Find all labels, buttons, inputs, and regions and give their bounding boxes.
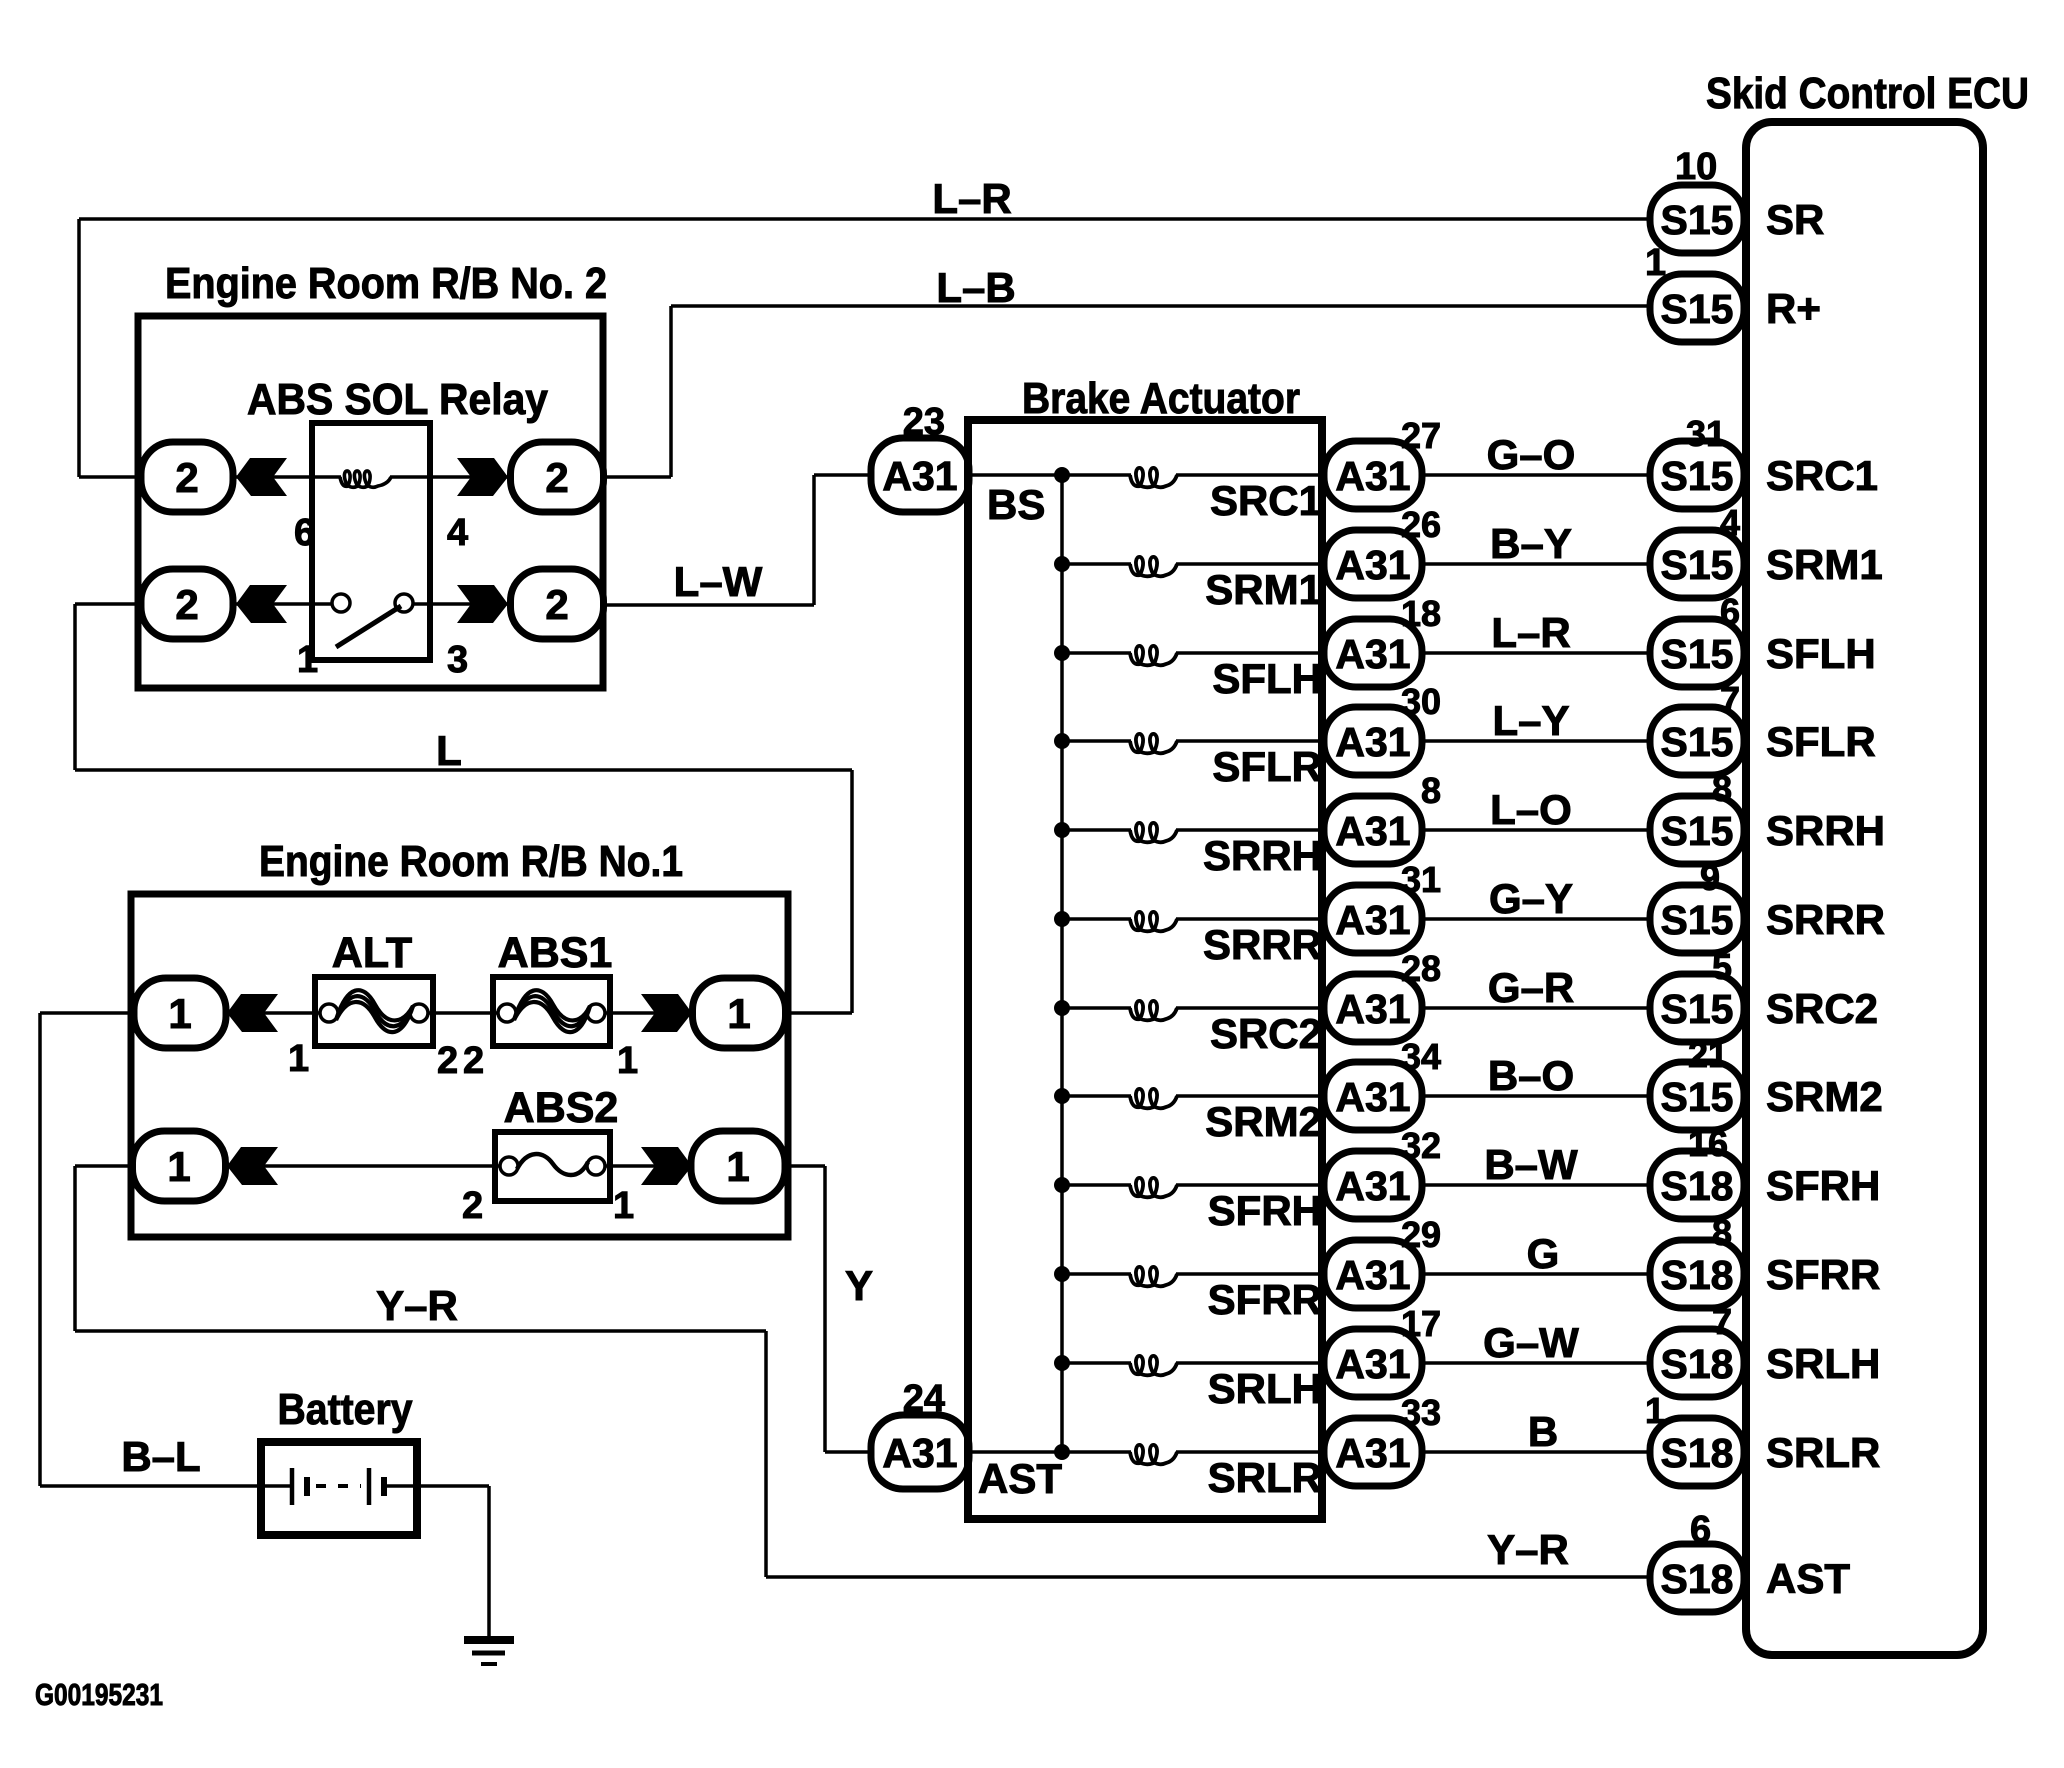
svg-text:G–Y: G–Y (1489, 875, 1573, 922)
svg-text:SFLR: SFLR (1766, 718, 1876, 765)
svg-text:A31: A31 (882, 1430, 957, 1476)
svg-text:2: 2 (462, 1185, 483, 1227)
svg-text:27: 27 (1401, 415, 1441, 456)
svg-text:S18: S18 (1661, 1556, 1734, 1602)
svg-text:L–R: L–R (932, 175, 1011, 222)
svg-text:SFLR: SFLR (1212, 743, 1322, 790)
svg-text:2: 2 (175, 581, 198, 628)
svg-text:4: 4 (1720, 502, 1740, 543)
svg-text:L: L (436, 727, 462, 774)
svg-text:SRC2: SRC2 (1766, 985, 1878, 1032)
svg-text:Skid Control ECU: Skid Control ECU (1706, 69, 2029, 118)
svg-text:SRC1: SRC1 (1766, 452, 1878, 499)
svg-text:18: 18 (1401, 593, 1441, 634)
svg-text:A31: A31 (1335, 1430, 1410, 1476)
svg-text:SFRH: SFRH (1766, 1162, 1880, 1209)
svg-text:G: G (1527, 1230, 1560, 1277)
svg-text:24: 24 (903, 1378, 945, 1420)
svg-text:A31: A31 (1335, 808, 1410, 854)
svg-text:A31: A31 (1335, 1163, 1410, 1209)
svg-text:SFLH: SFLH (1766, 630, 1876, 677)
svg-text:10: 10 (1675, 146, 1717, 188)
svg-text:30: 30 (1401, 681, 1441, 722)
svg-text:A31: A31 (1335, 1074, 1410, 1120)
svg-text:1: 1 (288, 1038, 309, 1080)
svg-text:29: 29 (1401, 1214, 1441, 1255)
svg-text:31: 31 (1686, 413, 1726, 454)
svg-text:Engine Room R/B No.1: Engine Room R/B No.1 (259, 837, 683, 886)
svg-text:17: 17 (1401, 1303, 1441, 1344)
svg-text:A31: A31 (1335, 453, 1410, 499)
svg-text:S15: S15 (1661, 897, 1734, 943)
svg-text:A31: A31 (1335, 631, 1410, 677)
svg-text:9: 9 (1700, 857, 1720, 898)
svg-text:SRRH: SRRH (1203, 832, 1322, 879)
svg-text:SRC1: SRC1 (1210, 477, 1322, 524)
svg-text:G–R: G–R (1488, 964, 1574, 1011)
svg-text:21: 21 (1688, 1034, 1728, 1075)
svg-text:7: 7 (1712, 1301, 1732, 1342)
svg-text:S15: S15 (1661, 808, 1734, 854)
svg-text:G–O: G–O (1487, 431, 1576, 478)
svg-text:B–L: B–L (121, 1433, 200, 1480)
svg-text:8: 8 (1712, 768, 1732, 809)
svg-text:S18: S18 (1661, 1430, 1734, 1476)
svg-text:S15: S15 (1661, 197, 1734, 243)
svg-text:28: 28 (1401, 948, 1441, 989)
svg-text:1: 1 (1645, 1390, 1665, 1431)
svg-text:2: 2 (463, 1040, 484, 1082)
svg-text:SRLH: SRLH (1208, 1365, 1322, 1412)
svg-text:1: 1 (1645, 242, 1666, 284)
svg-text:2: 2 (437, 1040, 458, 1082)
svg-text:Engine Room R/B No. 2: Engine Room R/B No. 2 (165, 259, 607, 308)
svg-text:Y: Y (845, 1262, 873, 1309)
svg-text:32: 32 (1401, 1125, 1441, 1166)
svg-text:SRM2: SRM2 (1205, 1098, 1322, 1145)
svg-text:S15: S15 (1661, 453, 1734, 499)
svg-text:4: 4 (447, 512, 468, 554)
svg-text:1: 1 (617, 1040, 638, 1082)
svg-text:R+: R+ (1766, 285, 1821, 332)
svg-text:A31: A31 (882, 453, 957, 499)
svg-text:SRM1: SRM1 (1205, 566, 1322, 613)
svg-text:5: 5 (1712, 946, 1732, 987)
svg-text:G–W: G–W (1483, 1319, 1579, 1366)
svg-text:31: 31 (1401, 859, 1441, 900)
svg-text:Y–R: Y–R (1487, 1526, 1569, 1573)
svg-text:S15: S15 (1661, 719, 1734, 765)
svg-text:8: 8 (1421, 770, 1441, 811)
svg-text:1: 1 (168, 990, 191, 1037)
svg-text:SFRR: SFRR (1766, 1251, 1880, 1298)
svg-text:SRM1: SRM1 (1766, 541, 1883, 588)
svg-text:23: 23 (903, 401, 945, 443)
svg-text:S15: S15 (1661, 986, 1734, 1032)
svg-text:B: B (1528, 1408, 1558, 1455)
svg-text:AST: AST (1766, 1555, 1850, 1602)
svg-text:1: 1 (726, 1143, 749, 1190)
svg-text:2: 2 (175, 454, 198, 501)
svg-text:6: 6 (1720, 591, 1740, 632)
svg-text:Brake Actuator: Brake Actuator (1022, 374, 1300, 423)
svg-text:L–Y: L–Y (1492, 697, 1569, 744)
svg-text:16: 16 (1688, 1123, 1728, 1164)
svg-text:SRRR: SRRR (1766, 896, 1885, 943)
svg-text:ABS1: ABS1 (498, 929, 613, 977)
svg-text:S18: S18 (1661, 1163, 1734, 1209)
svg-text:3: 3 (447, 639, 468, 681)
svg-text:6: 6 (1690, 1509, 1711, 1551)
svg-text:A31: A31 (1335, 719, 1410, 765)
svg-text:8: 8 (1712, 1212, 1732, 1253)
svg-text:L–R: L–R (1491, 609, 1570, 656)
svg-text:S15: S15 (1661, 631, 1734, 677)
svg-text:L–W: L–W (674, 558, 763, 605)
svg-text:SRLH: SRLH (1766, 1340, 1880, 1387)
svg-text:ABS2: ABS2 (504, 1084, 619, 1132)
svg-text:2: 2 (545, 581, 568, 628)
svg-text:SRC2: SRC2 (1210, 1010, 1322, 1057)
svg-text:1: 1 (297, 639, 318, 681)
svg-text:S15: S15 (1661, 286, 1734, 332)
svg-text:7: 7 (1720, 679, 1740, 720)
svg-text:A31: A31 (1335, 1252, 1410, 1298)
svg-text:B–O: B–O (1488, 1052, 1574, 1099)
svg-text:6: 6 (294, 512, 315, 554)
svg-text:A31: A31 (1335, 986, 1410, 1032)
svg-text:SFRR: SFRR (1208, 1276, 1322, 1323)
svg-text:SRLR: SRLR (1766, 1429, 1880, 1476)
svg-text:B–W: B–W (1484, 1141, 1578, 1188)
svg-text:1: 1 (727, 990, 750, 1037)
svg-text:ALT: ALT (332, 929, 412, 977)
svg-text:SRM2: SRM2 (1766, 1073, 1883, 1120)
svg-text:BS: BS (987, 481, 1045, 528)
svg-text:34: 34 (1401, 1036, 1441, 1077)
svg-text:L–O: L–O (1490, 786, 1572, 833)
svg-text:1: 1 (167, 1143, 190, 1190)
svg-text:1: 1 (613, 1185, 634, 1227)
svg-text:B–Y: B–Y (1490, 520, 1572, 567)
svg-text:A31: A31 (1335, 897, 1410, 943)
svg-text:SRRH: SRRH (1766, 807, 1885, 854)
svg-text:Y–R: Y–R (376, 1282, 458, 1329)
svg-text:S15: S15 (1661, 542, 1734, 588)
svg-text:SFRH: SFRH (1208, 1187, 1322, 1234)
svg-text:SFLH: SFLH (1212, 655, 1322, 702)
svg-text:S15: S15 (1661, 1074, 1734, 1120)
svg-text:S18: S18 (1661, 1341, 1734, 1387)
svg-text:G00195231: G00195231 (35, 1677, 163, 1712)
svg-text:L–B: L–B (936, 264, 1015, 311)
svg-text:26: 26 (1401, 504, 1441, 545)
svg-text:2: 2 (545, 454, 568, 501)
svg-text:Battery: Battery (278, 1385, 413, 1434)
svg-text:AST: AST (978, 1455, 1062, 1502)
svg-text:ABS SOL Relay: ABS SOL Relay (247, 375, 548, 424)
svg-text:33: 33 (1401, 1392, 1441, 1433)
svg-text:S18: S18 (1661, 1252, 1734, 1298)
svg-text:SRLR: SRLR (1208, 1454, 1322, 1501)
svg-text:SR: SR (1766, 196, 1824, 243)
svg-text:SRRR: SRRR (1203, 921, 1322, 968)
svg-text:A31: A31 (1335, 542, 1410, 588)
svg-text:A31: A31 (1335, 1341, 1410, 1387)
